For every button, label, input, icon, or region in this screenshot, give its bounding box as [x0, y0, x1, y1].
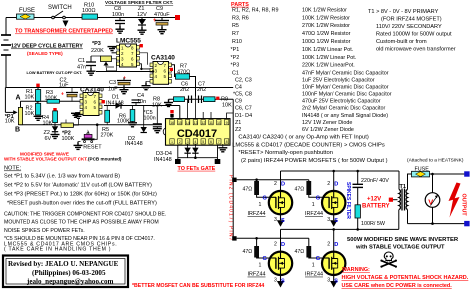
- wire battery negative down-rail: [5, 55, 7, 88]
- svg-text:C3: C3: [109, 80, 116, 86]
- svg-text:6V 1/2W Zener Diode: 6V 1/2W Zener Diode: [302, 127, 354, 133]
- svg-text:SWITCH: SWITCH: [48, 5, 72, 11]
- svg-text:USE CARE when DC POWER is conn: USE CARE when DC POWER is connected.: [342, 283, 453, 289]
- svg-text:*P1: *P1: [231, 47, 240, 53]
- node blue squares: [464, 171, 469, 176]
- svg-text:3: 3: [327, 217, 330, 223]
- resistor R7 body: [176, 74, 190, 79]
- svg-text:CD4017: CD4017: [177, 128, 217, 140]
- svg-text:Z1: Z1: [235, 120, 241, 126]
- svg-text:old microwave oven transformer: old microwave oven transformer: [376, 47, 456, 53]
- wire pin7 to R7: [172, 65, 176, 77]
- meter V: [432, 174, 434, 224]
- svg-text:12: 12: [201, 121, 205, 125]
- wire +12V rail: [5, 87, 233, 89]
- svg-text:6V: 6V: [45, 136, 52, 142]
- wire gate bus vertical: [232, 152, 234, 238]
- svg-text:2: 2: [274, 181, 277, 187]
- svg-text:Set *P3 (PRESET Pot.) to 128K: Set *P3 (PRESET Pot.) to 128K (for 60Hz)…: [4, 192, 157, 198]
- wire drain rail bottom row: [281, 228, 399, 230]
- svg-text:5: 5: [202, 140, 204, 144]
- ground below U2: [146, 81, 150, 82]
- svg-text:47Ω: 47Ω: [243, 187, 253, 193]
- svg-text:3: 3: [327, 278, 330, 284]
- svg-text:2: 2: [327, 181, 330, 187]
- svg-text:100Ω 1/2W Resistor: 100Ω 1/2W Resistor: [302, 39, 351, 45]
- svg-text:470Ω 1/2W Resistor: 470Ω 1/2W Resistor: [302, 31, 351, 37]
- svg-text:RESET: RESET: [83, 145, 102, 151]
- wire gate line bottom row: [237, 238, 309, 258]
- svg-text:1uF 25V Electrolytic Capacitor: 1uF 25V Electrolytic Capacitor: [302, 78, 375, 84]
- svg-text:1: 1: [312, 263, 315, 269]
- resistor RG4 47ohm: [306, 246, 311, 258]
- ground left end of feedback row: [164, 99, 173, 106]
- svg-text:+12V: +12V: [367, 197, 381, 203]
- svg-text:47n: 47n: [77, 65, 86, 71]
- svg-text:12V DEEP CYCLE BATTERY: 12V DEEP CYCLE BATTERY: [11, 44, 83, 50]
- wire gate line top row: [237, 180, 309, 198]
- svg-text:C6, C7: C6, C7: [235, 106, 252, 112]
- wire battery drop: [5, 18, 7, 36]
- svg-text:1: 1: [171, 140, 173, 144]
- svg-text:470uF 25V Electrolytic Capacit: 470uF 25V Electrolytic Capacitor: [302, 99, 381, 105]
- svg-text:IN4148: IN4148: [154, 157, 172, 163]
- svg-text:S: S: [334, 279, 338, 285]
- pin numbers top: [170, 121, 227, 125]
- resistor 100R/5W: [355, 205, 360, 218]
- node squares on gate bus: [232, 178, 236, 182]
- wire drains Q1 Q2: [281, 171, 334, 191]
- ground below U2 pin4: [142, 83, 151, 90]
- svg-text:G: G: [316, 196, 320, 202]
- svg-text:Set *P2 to 5.5V for 'Automatic: Set *P2 to 5.5V for 'Automatic' 11V cut-…: [4, 183, 152, 189]
- ground pin1: [113, 46, 117, 47]
- wire gate Q4: [309, 238, 322, 258]
- IC U1 LMC555 body: [120, 44, 137, 67]
- svg-text:47Ω: 47Ω: [295, 249, 305, 255]
- wire drains Q3 Q4: [281, 229, 334, 251]
- ground below U3: [76, 111, 81, 114]
- node red square at T1 tap: [389, 198, 393, 202]
- svg-text:*RESET> Normally-open pushbut: *RESET> Normally-open pushbutton: [238, 150, 333, 156]
- svg-text:10nF Mylar/ Ceramic Disc Capac: 10nF Mylar/ Ceramic Disc Capacitor: [302, 84, 389, 90]
- svg-text:IRFZ44: IRFZ44: [248, 272, 266, 278]
- wires top pins up: [172, 99, 233, 118]
- svg-text:1: 1: [312, 202, 315, 208]
- IC U3 CA3140 body: [83, 93, 99, 116]
- svg-text:13: 13: [194, 121, 198, 125]
- top pin tabs 16..9: [170, 120, 229, 125]
- transistor Q4 IRFZ44: [322, 252, 345, 275]
- svg-text:LMC555 & CD4017 (DECADE COUNTE: LMC555 & CD4017 (DECADE COUNTER) > CMOS …: [232, 143, 385, 149]
- svg-text:jealo_nepangue@yahoo.com: jealo_nepangue@yahoo.com: [26, 277, 113, 285]
- svg-text:220K: 220K: [91, 48, 104, 54]
- svg-text:47nF Mylar/ Ceramic Disc Capac: 47nF Mylar/ Ceramic Disc Capacitor: [302, 71, 389, 77]
- svg-text:100K: 100K: [62, 136, 75, 142]
- svg-text:Set *P1 to 5.34V (i.e. 1/3 wav: Set *P1 to 5.34V (i.e. 1/3 wav from A to…: [4, 174, 120, 180]
- svg-text:(2 pairs) IRFZ44 POWER MOSFET: (2 pairs) IRFZ44 POWER MOSFETS ( for 500…: [241, 158, 388, 164]
- ground at LMC555 pin1: [108, 47, 117, 51]
- svg-text:C1: C1: [232, 71, 239, 77]
- svg-text:LOW BATTERY CUT-OFF CKT.: LOW BATTERY CUT-OFF CKT.: [27, 70, 83, 75]
- svg-text:SPIKES FILTER: SPIKES FILTER: [345, 182, 351, 219]
- svg-text:HIGH VOLTAGE & POTENTIAL SHOCK: HIGH VOLTAGE & POTENTIAL SHOCK HAZARD.: [342, 275, 469, 281]
- svg-text:TO FETs GATE: TO FETs GATE: [178, 166, 216, 172]
- battery B1 12V: [1, 35, 11, 55]
- svg-text:220nF/ 40V: 220nF/ 40V: [361, 178, 389, 184]
- capacitor 220nF/40V: [353, 183, 364, 185]
- pin numbers bottom: [171, 140, 228, 144]
- ground at U3 pin4: [71, 113, 80, 117]
- skull icon: [380, 252, 397, 268]
- wires D3 D4 join to gate terminals: [178, 145, 218, 159]
- svg-text:15: 15: [178, 121, 182, 125]
- ground below RESET: [78, 142, 81, 144]
- svg-text:S: S: [281, 279, 285, 285]
- node red dot U3 out: [102, 100, 105, 103]
- svg-text:2n2: 2n2: [197, 87, 206, 93]
- svg-text:110V/ 220V SECONDARY: 110V/ 220V SECONDARY: [376, 24, 442, 30]
- resistor R9 body: [204, 97, 216, 102]
- ground near P2: [74, 114, 83, 118]
- ground below R2: [34, 116, 43, 120]
- svg-text:IRFZ44: IRFZ44: [248, 211, 266, 217]
- wire top rail from battery to filter node: [6, 17, 176, 19]
- svg-text:R1, R2, R4, R8, R9: R1, R2, R4, R8, R9: [232, 7, 278, 13]
- svg-text:C9: C9: [235, 99, 242, 105]
- svg-text:R10: R10: [232, 39, 242, 45]
- lightning bolt: [449, 183, 461, 218]
- svg-text:OUTPUT: OUTPUT: [461, 194, 467, 217]
- svg-text:2n2: 2n2: [180, 87, 189, 93]
- svg-text:4: 4: [194, 140, 196, 144]
- svg-text:D1- D4: D1- D4: [235, 113, 252, 119]
- source arrows Q3 Q4: [277, 275, 284, 288]
- pot P3: [101, 56, 112, 62]
- svg-text:100R/ 5W: 100R/ 5W: [361, 221, 386, 227]
- transistor Q3 IRFZ44: [269, 252, 292, 275]
- svg-text:2: 2: [274, 242, 277, 248]
- svg-text:3: 3: [274, 217, 277, 223]
- svg-text:14: 14: [186, 121, 190, 125]
- svg-text:100Ω: 100Ω: [82, 8, 96, 14]
- svg-text:NOISE SPIKES OF POWER FETs.: NOISE SPIKES OF POWER FETs.: [4, 228, 85, 234]
- svg-text:*P3: *P3: [231, 63, 240, 69]
- revised-by box frame: [3, 256, 128, 288]
- svg-text:10K: 10K: [5, 118, 15, 124]
- svg-text:D: D: [334, 182, 338, 188]
- svg-text:B: B: [15, 127, 20, 134]
- ground below C5: [153, 129, 162, 133]
- ground below C3: [120, 87, 129, 94]
- svg-text:500W MODIFIED SINE WAVE INVERT: 500W MODIFIED SINE WAVE INVERTER: [347, 237, 459, 243]
- svg-text:T1 > 8V - 0V - 8V PRIMARY: T1 > 8V - 0V - 8V PRIMARY: [368, 9, 439, 15]
- svg-text:100nF Mylar/ Ceramic Disc Capa: 100nF Mylar/ Ceramic Disc Capacitor: [302, 92, 392, 98]
- svg-text:IRFZ44: IRFZ44: [305, 272, 323, 278]
- svg-text:*C5, C8: *C5, C8: [233, 92, 252, 98]
- ground below Z2: [51, 135, 60, 139]
- bottom pin tabs 1..8: [170, 139, 229, 144]
- svg-text:IN4148 ( or any Small Signal D: IN4148 ( or any Small Signal Diode): [302, 113, 388, 119]
- arrow to transformer: [63, 21, 69, 27]
- svg-text:PIN2 (CD4017) PIN7: PIN2 (CD4017) PIN7: [228, 175, 234, 242]
- wire left rail down: [4, 88, 6, 113]
- svg-text:11: 11: [209, 121, 213, 125]
- svg-text:D: D: [281, 242, 285, 248]
- svg-text:10K 1/2W Linear Pot.: 10K 1/2W Linear Pot.: [302, 47, 353, 53]
- svg-text:270K: 270K: [101, 132, 114, 138]
- svg-text:R5: R5: [232, 23, 239, 29]
- node red junction: [175, 15, 180, 20]
- svg-text:100n: 100n: [112, 12, 124, 18]
- IC U2 CA3140 body: [153, 62, 169, 85]
- svg-text:C1: C1: [78, 58, 85, 64]
- svg-text:CA3140: CA3140: [151, 55, 175, 62]
- ground at RESET: [74, 142, 83, 149]
- wire gate Q2: [309, 180, 322, 198]
- svg-text:IN4148: IN4148: [125, 141, 143, 147]
- svg-text:*P2: *P2: [231, 55, 240, 61]
- svg-text:IRFZ44: IRFZ44: [305, 211, 323, 217]
- svg-text:CAUTION: THE TRIGGER COMPONENT: CAUTION: THE TRIGGER COMPONENT FOR CD401…: [4, 212, 166, 218]
- svg-text:CA3140/ CA3240 ( or any Op-Amp: CA3140/ CA3240 ( or any Op-Amp with FET …: [238, 135, 368, 141]
- svg-text:WITH STABLE VOLTAGE OUTPUT CKT: WITH STABLE VOLTAGE OUTPUT CKT.: [4, 157, 88, 162]
- svg-text:VOLTAGE SPIKES FILTER CKT.: VOLTAGE SPIKES FILTER CKT.: [105, 0, 173, 5]
- svg-text:( TAKE CARE IN HANDLING THEM ): ( TAKE CARE IN HANDLING THEM ): [4, 246, 111, 252]
- resistor RG1 47ohm: [254, 181, 259, 195]
- ground below U4 pin8: [218, 148, 227, 152]
- svg-text:1uF: 1uF: [59, 83, 69, 89]
- node black square gate A: [175, 159, 181, 164]
- ground: [158, 27, 167, 34]
- svg-text:FUSE: FUSE: [19, 8, 35, 14]
- svg-text:*P3: *P3: [92, 41, 101, 47]
- wire spikes filter branch: [357, 171, 359, 229]
- svg-text:G: G: [263, 196, 267, 202]
- resistor RG3 47ohm: [254, 246, 259, 258]
- svg-text:10K: 10K: [222, 103, 232, 109]
- svg-text:with STABLE VOLTAGE OUTPUT: with STABLE VOLTAGE OUTPUT: [355, 245, 445, 251]
- diode D3: [187, 144, 189, 148]
- source arrows Q1 Q2: [277, 214, 284, 227]
- svg-text:10K: 10K: [25, 111, 35, 117]
- svg-text:R7: R7: [232, 31, 239, 37]
- pin tabs right 8-5: [137, 46, 140, 50]
- svg-text:2n2 Mylar/ Ceramic Disc Capaci: 2n2 Mylar/ Ceramic Disc Capacitor: [302, 106, 385, 112]
- svg-text:WARNING:: WARNING:: [342, 267, 370, 273]
- svg-text:47Ω: 47Ω: [295, 187, 305, 193]
- svg-text:2: 2: [327, 242, 330, 248]
- wire P3 to pin2: [112, 52, 117, 54]
- svg-text:(PCB mounted): (PCB mounted): [88, 157, 122, 162]
- svg-text:*BETTER MOSFET CAN BE SUBSTITU: *BETTER MOSFET CAN BE SUBSTITUTE FOR IRF…: [132, 283, 264, 289]
- svg-text:BATTERY: BATTERY: [362, 204, 390, 210]
- svg-text:S: S: [334, 218, 338, 224]
- svg-text:(Philippines) 06-03-2005: (Philippines) 06-03-2005: [32, 269, 106, 277]
- resistor RG2 47ohm: [306, 181, 311, 195]
- wire T1 secondary to fuse and rail: [408, 174, 465, 224]
- wire row A: [20, 100, 104, 102]
- svg-text:R3, R6: R3, R6: [232, 15, 249, 21]
- svg-text:*RESET push-button over rides: *RESET push-button over rides the cut-of…: [7, 201, 157, 207]
- svg-text:G: G: [263, 256, 267, 262]
- transistor Q2 IRFZ44: [322, 191, 345, 214]
- svg-text:100K: 100K: [117, 119, 130, 125]
- svg-text:TO TRANSFORMER CENTERTAPPED: TO TRANSFORMER CENTERTAPPED: [15, 29, 113, 35]
- IC U4 CD4017 body: [166, 119, 231, 146]
- wire 555 to U2 row: [96, 71, 153, 73]
- wire U3 out row: [104, 106, 180, 119]
- ground below C1: [87, 68, 96, 75]
- transistor Q1 IRFZ44: [269, 191, 292, 214]
- svg-text:G: G: [316, 256, 320, 262]
- node red dot R4 top: [53, 108, 56, 111]
- svg-text:S: S: [281, 218, 285, 224]
- svg-text:C2, C3: C2, C3: [235, 78, 252, 84]
- wire drain rail top row: [281, 170, 400, 172]
- svg-text:12V: 12V: [137, 12, 147, 18]
- svg-text:10: 10: [217, 121, 221, 125]
- svg-text:A: A: [16, 95, 21, 102]
- svg-text:Revised by: JEALO U. NEPANGUE: Revised by: JEALO U. NEPANGUE: [8, 260, 119, 268]
- svg-text:D: D: [281, 182, 285, 188]
- svg-text:3: 3: [187, 140, 189, 144]
- svg-text:MOUNTED AS CLOSE TO THE CHIP A: MOUNTED AS CLOSE TO THE CHIP AS POSSIBLE…: [4, 220, 159, 226]
- svg-text:Custom-built or from: Custom-built or from: [376, 39, 427, 45]
- svg-text:8: 8: [226, 140, 228, 144]
- svg-text:220K 1/2W LinearPot.: 220K 1/2W LinearPot.: [302, 63, 355, 69]
- svg-text:NOTE:: NOTE:: [4, 166, 22, 172]
- ground: [116, 26, 125, 33]
- svg-text:9: 9: [226, 121, 228, 125]
- pin tabs left 1-4: [117, 46, 120, 50]
- svg-text:1: 1: [259, 202, 262, 208]
- diode D4: [194, 144, 196, 148]
- ground: [138, 27, 147, 34]
- svg-text:2: 2: [179, 140, 181, 144]
- wire feedback row: [169, 99, 234, 152]
- node red dot pin6: [170, 68, 173, 71]
- svg-text:270K 1/2W Resistor: 270K 1/2W Resistor: [302, 23, 350, 29]
- node red dot pin8: [140, 44, 143, 47]
- node red dot: [216, 97, 219, 100]
- svg-text:LMC555: LMC555: [116, 38, 141, 45]
- svg-text:100n: 100n: [144, 116, 156, 122]
- svg-text:100K 1/2W Resistor: 100K 1/2W Resistor: [302, 15, 350, 21]
- wire P1 wiper with arrow: [5, 111, 13, 113]
- node black square gate B: [215, 159, 221, 164]
- svg-text:12V 1W Zener Diode: 12V 1W Zener Diode: [302, 120, 352, 126]
- svg-text:10K 1/2W Resistor: 10K 1/2W Resistor: [302, 7, 347, 13]
- svg-text:100K 1/2W Linear Pot.: 100K 1/2W Linear Pot.: [302, 55, 356, 61]
- svg-text:Rated 1000W for 500W output: Rated 1000W for 500W output: [376, 32, 452, 38]
- wire row B: [19, 124, 162, 126]
- node red dot R1 top: [36, 84, 39, 87]
- wire 555 out to CA3140: [140, 64, 154, 69]
- node red dot pin16: [170, 110, 173, 113]
- revised-by text: [8, 260, 119, 285]
- svg-text:+: +: [61, 92, 64, 98]
- svg-text:(FOR IRFZ44 MOSFET): (FOR IRFZ44 MOSFET): [381, 17, 442, 23]
- wire R7 out: [190, 77, 196, 97]
- svg-text:6: 6: [210, 140, 212, 144]
- wire RESET to row B: [95, 125, 98, 140]
- svg-text:3: 3: [274, 278, 277, 284]
- resistor R8 body: [174, 97, 185, 102]
- svg-text:C4: C4: [235, 84, 242, 90]
- svg-text:16: 16: [170, 121, 174, 125]
- svg-text:7: 7: [218, 140, 220, 144]
- svg-text:(Attached to a HEATSINK): (Attached to a HEATSINK): [407, 158, 464, 164]
- svg-text:D: D: [334, 242, 338, 248]
- svg-text:Z2: Z2: [235, 127, 241, 133]
- svg-text:D3-D4: D3-D4: [156, 151, 172, 157]
- svg-text:1: 1: [259, 263, 262, 269]
- svg-text:(SEALED TYPE): (SEALED TYPE): [27, 51, 63, 56]
- ground below U4 right: [222, 144, 224, 148]
- svg-text:10K: 10K: [43, 121, 53, 127]
- ground below R6: [128, 123, 137, 127]
- wire R7 drop junction: [195, 97, 197, 100]
- svg-text:10K: 10K: [25, 95, 35, 101]
- svg-text:47Ω: 47Ω: [243, 249, 253, 255]
